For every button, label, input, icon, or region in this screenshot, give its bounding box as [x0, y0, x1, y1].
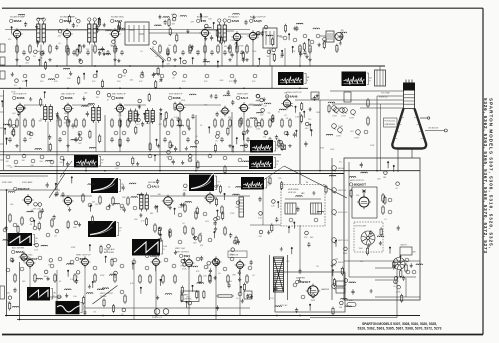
- svg-text:.01: .01: [30, 211, 33, 213]
- resistor: [67, 120, 69, 126]
- part ref: [230, 74, 234, 78]
- wire riser: [56, 172, 58, 190]
- component cluster deflection right parts: [397, 256, 423, 303]
- wire IF stub: [119, 113, 121, 152]
- waveform annotation: [274, 158, 276, 168]
- svg-text:CONTROL: CONTROL: [183, 299, 192, 301]
- svg-text:FOCUS COIL: FOCUS COIL: [385, 121, 396, 123]
- part ref: [301, 295, 305, 299]
- svg-text:5%: 5%: [57, 301, 60, 303]
- svg-text:INTERLOCK: INTERLOCK: [152, 317, 163, 319]
- tube V12: [238, 102, 249, 114]
- tuner box T3: [125, 22, 149, 45]
- wire stub: [133, 258, 135, 320]
- tube V2: [61, 28, 72, 40]
- svg-text:.002: .002: [171, 14, 175, 16]
- resistor: [111, 120, 113, 126]
- wire riser: [396, 270, 398, 318]
- waveform photo W11: [132, 239, 160, 256]
- wire: [240, 33, 250, 35]
- tube V11: [220, 106, 230, 117]
- svg-text:SOUND IF AMP: SOUND IF AMP: [10, 16, 26, 19]
- part ref: [303, 34, 307, 38]
- part ref: [406, 270, 410, 274]
- resistor: [94, 46, 96, 52]
- wire sync bus: [0, 189, 60, 191]
- svg-text:1M: 1M: [263, 137, 266, 139]
- wire: [375, 296, 420, 298]
- svg-text:.01: .01: [228, 187, 231, 189]
- capacitor: [210, 50, 214, 55]
- wire: [256, 32, 263, 34]
- resistor: [214, 120, 216, 126]
- wire: [375, 279, 398, 281]
- svg-text:.001: .001: [350, 131, 354, 133]
- part ref: [33, 226, 37, 230]
- resistor: [39, 212, 41, 218]
- svg-text:470K: 470K: [249, 104, 254, 106]
- svg-text:680: 680: [413, 252, 416, 254]
- svg-text:.001: .001: [6, 293, 10, 295]
- part ref: [93, 74, 97, 78]
- ground: [245, 58, 249, 62]
- wire bus IF row: [0, 87, 308, 89]
- wire diagonal vert trans: [93, 286, 118, 305]
- svg-text:AUDIO OUTPUT: AUDIO OUTPUT: [250, 16, 266, 19]
- wire vert stub: [155, 267, 157, 316]
- svg-text:100: 100: [95, 204, 98, 206]
- waveform annotation: [33, 235, 35, 245]
- part ref: [6, 268, 10, 272]
- svg-text:100: 100: [188, 53, 191, 55]
- svg-text:.001: .001: [205, 221, 209, 223]
- ground: [118, 144, 122, 148]
- resistor: [236, 46, 238, 52]
- part ref: [62, 131, 66, 135]
- control HEIGHT: [332, 166, 337, 171]
- resistor: [199, 276, 201, 282]
- part ref: [145, 266, 149, 270]
- wire gun riser 2: [380, 104, 382, 171]
- wire vert stub: [188, 267, 190, 316]
- svg-text:AGC KEYER: AGC KEYER: [12, 247, 25, 250]
- wire IF stub: [19, 113, 21, 152]
- capacitor: [163, 137, 167, 142]
- resistor: [195, 212, 197, 218]
- rectifier: [336, 281, 345, 286]
- wire riser: [231, 112, 233, 152]
- wire stub: [56, 270, 58, 301]
- svg-text:.05: .05: [218, 273, 221, 275]
- wire stub: [29, 267, 31, 287]
- svg-text:5%: 5%: [268, 113, 271, 115]
- tube V26: [306, 284, 320, 299]
- svg-text:33: 33: [48, 279, 50, 281]
- svg-text:.05: .05: [213, 223, 216, 225]
- resistor: [199, 235, 201, 241]
- output transformer T6: [326, 31, 334, 42]
- part ref: [140, 74, 144, 78]
- resistor: [51, 220, 53, 226]
- wire: [405, 278, 407, 297]
- ground: [173, 58, 177, 62]
- svg-text:270K: 270K: [230, 40, 235, 42]
- CRT picture tube 21AP4 neck: [404, 86, 415, 109]
- svg-text:AUDIO DET: AUDIO DET: [197, 16, 209, 19]
- svg-text:5%: 5%: [14, 85, 17, 87]
- hor output cage: [352, 187, 377, 218]
- tube V20: [25, 257, 36, 268]
- waveform photo W10: [241, 177, 264, 190]
- part ref: [106, 206, 110, 210]
- resistor: [124, 296, 126, 302]
- control HOR HOLD: [332, 210, 337, 215]
- svg-text:SOUND IF AMP: SOUND IF AMP: [60, 16, 76, 19]
- component cluster top row bias parts: [11, 67, 237, 89]
- svg-text:5326, 5362, 5363, 5365, 5367,: 5326, 5362, 5363, 5365, 5367, 5368, 5370…: [483, 98, 488, 253]
- resistor: [74, 275, 76, 281]
- waveform photo W7: [88, 220, 116, 237]
- svg-text:680: 680: [310, 237, 313, 239]
- wire bottom bus 1: [5, 315, 420, 317]
- waveform annotation: [51, 289, 53, 300]
- resistor: [209, 276, 211, 282]
- transformer T7: [44, 104, 53, 122]
- label box sync amp: [228, 251, 247, 258]
- svg-text:150K: 150K: [343, 253, 348, 255]
- wire stage stub: [16, 39, 18, 67]
- part ref: [230, 257, 234, 261]
- resistor: [29, 46, 31, 52]
- svg-text:DAMPER: DAMPER: [296, 277, 305, 280]
- svg-text:680: 680: [73, 227, 76, 229]
- svg-text:12AU7: 12AU7: [150, 254, 160, 258]
- selenium rect: [244, 291, 252, 299]
- focus coil label box: [384, 118, 398, 127]
- wire riser: [104, 115, 106, 152]
- wire: [72, 104, 92, 106]
- resistor: [367, 118, 369, 124]
- svg-text:.01: .01: [172, 20, 175, 22]
- svg-text:6AL5: 6AL5: [241, 96, 249, 100]
- part ref: [216, 216, 220, 220]
- capacitor: [196, 50, 200, 55]
- part ref: [168, 156, 172, 160]
- svg-text:100: 100: [335, 259, 338, 261]
- wire stub: [309, 48, 311, 66]
- wire long diagonal to hor output: [284, 166, 347, 198]
- ground: [113, 58, 117, 62]
- svg-text:470K: 470K: [71, 247, 76, 249]
- resistor: [246, 276, 248, 282]
- svg-text:120: 120: [322, 44, 325, 46]
- part ref: [22, 154, 26, 158]
- svg-text:6AV6: 6AV6: [232, 19, 240, 23]
- svg-text:SYNC AMP: SYNC AMP: [22, 181, 33, 184]
- part ref: [223, 267, 227, 271]
- waveform photo W9: [189, 174, 214, 191]
- yoke plug: [375, 70, 386, 86]
- svg-text:6W4: 6W4: [184, 254, 191, 258]
- svg-text:6CB6: 6CB6: [17, 96, 25, 100]
- svg-text:.01: .01: [107, 99, 110, 101]
- wire 2nd anode: [425, 130, 444, 132]
- waveform photo W1: [278, 72, 304, 85]
- svg-text:150K: 150K: [359, 248, 364, 250]
- waveform annotation: [304, 74, 306, 84]
- wire tick: [0, 127, 4, 129]
- svg-text:150K: 150K: [330, 149, 335, 151]
- resistor: [187, 120, 189, 126]
- wire transformer stub: [91, 45, 93, 67]
- part ref: [20, 267, 24, 271]
- resistor: [299, 46, 301, 52]
- transformer T1: [37, 22, 46, 45]
- svg-text:SPARTON MODELS 5307, 5308, 531: SPARTON MODELS 5307, 5308, 5310, 5320, 5…: [489, 98, 494, 248]
- wire: [60, 195, 92, 197]
- hor osc coil L1: [239, 197, 244, 217]
- anode stub: [420, 117, 427, 119]
- svg-text:120: 120: [167, 63, 170, 65]
- wire video riser: [299, 112, 301, 184]
- svg-text:.05: .05: [58, 43, 61, 45]
- wire: [277, 35, 282, 37]
- svg-text:100: 100: [339, 307, 342, 309]
- tube V8: [62, 103, 73, 115]
- svg-text:2ND ANODE: 2ND ANODE: [428, 127, 439, 130]
- resistor: [174, 276, 176, 282]
- CRT funnel: [392, 109, 426, 149]
- resistor: [83, 120, 85, 126]
- control BRIGHT: [332, 106, 337, 111]
- svg-text:.05: .05: [59, 281, 62, 283]
- svg-text:.05: .05: [172, 78, 175, 80]
- wire stage stub: [66, 39, 68, 67]
- waveform annotation: [265, 179, 267, 189]
- waveform annotation: [80, 303, 82, 313]
- part ref: [148, 154, 152, 158]
- wire IF stub: [67, 113, 69, 152]
- border frame right: [482, 8, 484, 334]
- resistor: [382, 207, 384, 213]
- ground: [78, 58, 82, 62]
- capacitor: [23, 137, 27, 142]
- ground: [203, 58, 207, 62]
- capacitor: [246, 137, 250, 142]
- capacitor: [223, 50, 227, 55]
- svg-text:220: 220: [86, 49, 89, 51]
- component cluster video detector parts: [46, 150, 249, 174]
- part ref: [203, 212, 207, 216]
- part ref: [114, 131, 118, 135]
- svg-text:.01: .01: [140, 51, 143, 53]
- waveform photo W3: [250, 140, 273, 153]
- wire: [250, 224, 281, 226]
- resistor: [21, 218, 23, 224]
- svg-text:6AL5: 6AL5: [152, 185, 160, 189]
- wire: [96, 29, 112, 31]
- svg-text:.001: .001: [12, 113, 16, 115]
- component cluster video IF strip parts: [2, 90, 335, 153]
- terminal block bottom left: [0, 286, 5, 299]
- part ref: [27, 131, 31, 135]
- resistor: [99, 197, 101, 203]
- resistor: [114, 275, 116, 281]
- svg-text:470K: 470K: [146, 123, 151, 125]
- resistor: [14, 275, 16, 281]
- part ref: [196, 257, 200, 261]
- wire IF stub: [47, 122, 49, 152]
- part ref: [216, 131, 220, 135]
- wire: [70, 29, 88, 31]
- resistor: [189, 46, 191, 52]
- svg-text:33: 33: [106, 250, 108, 252]
- control contrast: [334, 108, 339, 113]
- wire CRT cathode: [332, 103, 403, 105]
- svg-text:220: 220: [249, 127, 252, 129]
- resistor: [114, 46, 116, 52]
- svg-text:5%: 5%: [76, 277, 79, 279]
- wire yoke lead 2: [411, 149, 413, 158]
- capacitor: [58, 137, 62, 142]
- ground: [48, 58, 52, 62]
- peaking coil assembly: [311, 92, 319, 99]
- part ref: [158, 238, 162, 242]
- part ref: [208, 238, 212, 242]
- part ref: [248, 294, 252, 298]
- power control box: [181, 291, 199, 302]
- transformer T9: [146, 108, 155, 124]
- part ref: [160, 74, 164, 78]
- svg-text:CRT SOCKET: CRT SOCKET: [355, 226, 367, 228]
- wire switch diagonal: [150, 48, 164, 61]
- wire gun lead: [377, 95, 404, 97]
- part ref: [23, 74, 27, 78]
- wire yoke lead 1: [397, 149, 399, 172]
- tube V23: [184, 257, 195, 268]
- svg-text:5326, 5362, 5363, 5365, 5367,: 5326, 5362, 5363, 5365, 5367, 5368, 5370…: [358, 327, 442, 331]
- svg-text:1M: 1M: [98, 54, 101, 56]
- svg-text:470K: 470K: [100, 275, 105, 277]
- waveform annotation: [161, 241, 163, 255]
- part ref: [238, 158, 242, 162]
- wire: [320, 35, 326, 37]
- wire inner routing: [344, 162, 420, 277]
- speaker LS1: [335, 33, 343, 41]
- wire stub: [262, 190, 264, 225]
- wire stage stub: [204, 39, 206, 67]
- svg-text:.002: .002: [301, 193, 305, 195]
- wire riser: [271, 66, 273, 88]
- svg-text:VERT LIN: VERT LIN: [338, 190, 347, 192]
- resistor: [49, 46, 51, 52]
- waveform photo W4: [249, 156, 273, 169]
- part ref: [120, 264, 124, 268]
- tube V13: [281, 98, 292, 110]
- wire: [118, 29, 125, 31]
- capacitor: [126, 137, 130, 142]
- svg-text:100: 100: [67, 78, 70, 80]
- wire AGC bus: [0, 170, 420, 172]
- svg-text:.05: .05: [395, 188, 398, 190]
- svg-text:33: 33: [286, 118, 288, 120]
- wire: [375, 267, 392, 269]
- resistor: [289, 120, 291, 126]
- wire left riser: [3, 90, 5, 170]
- control VERT LIN: [332, 188, 337, 193]
- wire: [226, 30, 234, 32]
- resistor: [229, 120, 231, 126]
- tube V7: [14, 103, 25, 115]
- border frame top: [2, 7, 483, 9]
- capacitor: [303, 50, 307, 55]
- control: [340, 108, 345, 113]
- svg-text:33: 33: [92, 121, 94, 123]
- ground: [66, 144, 70, 148]
- resistor: [171, 120, 173, 126]
- svg-text:.05: .05: [200, 233, 203, 235]
- wire tick: [0, 143, 4, 145]
- part ref: [40, 155, 44, 159]
- control contrast: [356, 130, 361, 135]
- component cluster audio section parts: [256, 23, 346, 65]
- svg-text:6W4GT: 6W4GT: [300, 280, 311, 284]
- svg-text:6CB6: 6CB6: [65, 96, 73, 100]
- part ref: [58, 257, 62, 261]
- svg-text:HOR LIN: HOR LIN: [288, 192, 296, 194]
- svg-text:33: 33: [243, 150, 245, 152]
- control contrast: [351, 110, 356, 115]
- capacitor: [166, 50, 170, 55]
- wire: [24, 104, 44, 106]
- ground: [15, 144, 19, 148]
- svg-text:.002: .002: [233, 35, 237, 37]
- svg-text:WIDTH: WIDTH: [401, 245, 408, 247]
- component cluster horizontal section parts: [258, 175, 336, 254]
- svg-text:FUSE: FUSE: [348, 300, 354, 302]
- resistor: [82, 195, 84, 201]
- wire stage stub: [252, 39, 254, 67]
- svg-text:.001: .001: [84, 93, 88, 95]
- svg-text:150K: 150K: [221, 112, 226, 114]
- wire: [310, 317, 397, 319]
- width coil: [400, 247, 412, 255]
- control WIDTH: [332, 260, 337, 265]
- tube V22: [151, 256, 162, 267]
- ground: [228, 144, 232, 148]
- svg-text:WIDTH: WIDTH: [338, 262, 345, 264]
- part ref: [164, 258, 168, 262]
- wire: [124, 104, 146, 106]
- resistor: [224, 228, 226, 234]
- tube V14: [22, 194, 33, 206]
- svg-text:.05: .05: [215, 141, 218, 143]
- svg-text:120: 120: [270, 298, 273, 300]
- capacitor: [120, 50, 124, 55]
- wire: [184, 104, 221, 106]
- part ref: [364, 130, 368, 134]
- part ref: [3, 228, 7, 232]
- resistor: [54, 275, 56, 281]
- part ref: [118, 74, 122, 78]
- tube V25: [235, 259, 246, 270]
- tube V15: [62, 195, 73, 207]
- part ref: [172, 264, 176, 268]
- svg-text:150K: 150K: [178, 207, 183, 209]
- waveform annotation: [367, 73, 369, 85]
- part ref: [205, 74, 209, 78]
- transformer T10: [129, 109, 138, 124]
